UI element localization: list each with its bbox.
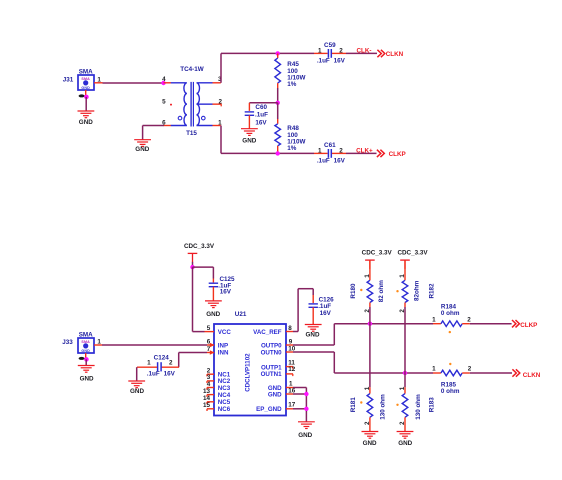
wire top rail [221,52,314,54]
capacitor C59 [314,49,346,58]
wire R184 to CLKP connector [470,323,512,325]
svg-text:16V: 16V [320,310,332,317]
wire T15 pin3 up to top rail [220,53,222,82]
ground GND at C125 [205,301,222,318]
wire J31 pin1 to T15 pin4 [103,82,165,84]
ground GND at R183 [397,432,414,447]
svg-text:GND: GND [79,119,93,126]
svg-text:5: 5 [162,99,166,106]
svg-text:GND: GND [206,311,220,318]
wire C59 to CLKN connector [346,52,377,54]
wire junction to C60 [249,102,277,104]
svg-text:4: 4 [207,381,211,388]
svg-text:NC4: NC4 [218,392,231,399]
svg-text:SMA: SMA [81,340,90,344]
junction CDC_3.3V [190,265,194,269]
svg-text:R183: R183 [428,397,435,413]
wire VAC_REF pin8 to C126 [293,331,298,333]
R183 labels [396,386,435,425]
svg-text:CDC_3.3V: CDC_3.3V [362,249,393,256]
svg-text:GND: GND [298,432,312,439]
svg-text:17: 17 [288,402,296,409]
R184 labels [432,303,471,333]
wire GND pin1 [293,387,306,389]
resistor R45 [275,53,281,88]
wire R45 to middle junction [277,88,279,103]
wire R182 down through CLKP rail to CLKN rail [404,307,406,373]
wire OUTP0 pin9 to CLKP rail [293,344,334,346]
wire R185 to CLKN connector [470,372,512,374]
svg-text:1: 1 [432,366,436,373]
svg-text:J33: J33 [62,339,73,346]
svg-text:1: 1 [289,381,293,388]
svg-text:VAC_REF: VAC_REF [253,329,282,336]
C125 value labels [218,276,235,295]
svg-text:15: 15 [203,402,211,409]
wire GND pin16 [293,393,306,395]
ground GND at C60 [241,129,258,145]
svg-text:GND: GND [81,349,90,353]
svg-text:TC4-1W: TC4-1W [180,66,203,73]
svg-text:GND: GND [242,137,256,144]
svg-text:OUTP0: OUTP0 [261,342,282,349]
capacitor C61 [314,149,346,158]
R45 value labels [287,61,305,88]
U21 right pin numbers [288,325,296,408]
R180 labels [350,274,385,313]
U21 right pin stubs [286,332,293,409]
svg-text:C59: C59 [324,42,336,49]
svg-text:16V: 16V [255,120,267,127]
svg-text:16V: 16V [164,371,176,378]
C59 labels [317,42,346,64]
ground GND below J33 [78,366,95,383]
svg-text:1%: 1% [287,145,297,152]
power symbol CDC_3.3V at R182 [397,249,428,269]
wire C61 to CLKP connector [346,152,377,154]
capacitor C60 [245,103,254,129]
svg-text:OUTN1: OUTN1 [261,371,283,378]
wire J33 to GND [85,359,87,365]
wire J31 to GND [85,97,87,111]
svg-text:T15: T15 [186,130,197,137]
svg-text:R180: R180 [350,283,357,299]
C124 labels [147,354,176,377]
svg-text:R48: R48 [287,125,299,132]
svg-text:J31: J31 [63,77,74,84]
svg-text:GND: GND [130,388,144,395]
svg-text:1: 1 [364,386,371,390]
svg-text:1%: 1% [287,81,297,88]
svg-text:130 ohm: 130 ohm [379,394,386,420]
svg-text:1: 1 [399,386,406,390]
svg-text:13: 13 [203,388,211,395]
svg-text:2: 2 [467,316,471,323]
svg-text:CLKN: CLKN [386,51,404,58]
svg-text:INP: INP [218,342,228,349]
svg-text:CLKN: CLKN [523,372,541,379]
C126 value labels [318,297,334,317]
wire junction to C125 [193,266,214,268]
wire bottom rail [221,152,314,154]
svg-text:7: 7 [207,346,211,353]
ground GND at R181 [362,432,379,447]
junction at T15 pin 4 [161,81,165,85]
svg-text:2: 2 [399,421,406,425]
svg-text:0 ohm: 0 ohm [441,388,460,395]
transformer T15 TC4-1W [62,42,540,447]
off-page connector CLKN (bottom) [512,369,519,376]
svg-text:CLKP: CLKP [389,151,406,158]
off-page connector CLKP (bottom) [512,320,519,327]
svg-text:.1uF: .1uF [317,158,330,165]
svg-text:NC3: NC3 [218,385,231,392]
svg-text:2: 2 [339,48,343,55]
connector J31 (SMA) [63,68,103,95]
svg-text:R181: R181 [350,397,357,413]
svg-text:GND: GND [363,440,377,447]
wire R180 to CLKP rail [369,307,371,324]
U21 right pin names [253,329,282,413]
svg-text:VCC: VCC [218,329,232,336]
resistor R184 0 ohm [433,321,470,327]
svg-text:GND: GND [268,392,282,399]
svg-text:.1uF: .1uF [317,58,330,65]
svg-text:16V: 16V [334,158,346,165]
svg-text:1: 1 [399,274,406,278]
svg-text:OUTN0: OUTN0 [261,350,283,357]
R182 labels [396,274,435,313]
svg-text:U21: U21 [235,311,247,318]
resistor R182 82ohm [402,260,408,307]
svg-text:CLK+: CLK+ [356,147,373,154]
wire J33 pin1 to INP pin6 [102,344,207,346]
wire T15 pin6 to ground [143,125,164,127]
R181 labels [350,386,386,425]
svg-text:1: 1 [318,48,322,55]
resistor R181 130 ohm [367,324,373,432]
svg-text:16V: 16V [220,289,232,296]
capacitor C124 [137,362,179,371]
wire OUTN0 pin10 to CLKN rail [293,351,334,353]
svg-text:1: 1 [432,316,436,323]
svg-text:NC6: NC6 [218,406,231,413]
ground GND at C124 [128,381,145,395]
svg-text:6: 6 [207,339,211,346]
ground GND at C126 [305,325,322,339]
svg-text:1: 1 [147,360,151,367]
svg-text:2: 2 [339,148,343,155]
svg-text:CDC_3.3V: CDC_3.3V [397,249,428,256]
svg-text:GND: GND [135,146,149,153]
junction R180/R181 on CLKP rail [368,322,372,326]
junction below J33 [84,357,89,362]
ground GND at U21 pins 1/16/17 [298,422,315,439]
U21 left pin stubs [205,332,215,411]
svg-text:2: 2 [364,421,371,425]
svg-text:16V: 16V [334,58,346,65]
U21 left pin names [218,329,232,413]
svg-text:5: 5 [207,325,211,332]
junction below J31 [84,95,89,100]
wire C124 pin1 to GND [136,367,138,381]
capacitor C125 [209,279,218,301]
svg-text:1: 1 [318,148,322,155]
svg-text:R182: R182 [428,283,435,299]
svg-text:C61: C61 [324,142,336,149]
junction top rail / R45 [276,51,280,55]
svg-text:EP_GND: EP_GND [256,406,282,413]
J33 pin hole marker [79,357,85,360]
svg-text:CDCLVP1102: CDCLVP1102 [245,353,252,392]
ground GND at T15 pin6 [134,140,151,154]
svg-text:GND: GND [80,375,94,382]
svg-text:2: 2 [468,366,472,373]
svg-text:CLKP: CLKP [520,322,537,329]
svg-text:0 ohm: 0 ohm [441,310,460,317]
svg-text:C124: C124 [154,354,170,361]
svg-text:4: 4 [162,76,166,83]
junction pin16 gnd [304,392,308,396]
svg-text:.1uF: .1uF [255,111,268,118]
wire junction down to VCC pin5 [192,267,194,332]
svg-text:.1uF: .1uF [147,371,160,378]
svg-text:14: 14 [203,395,211,402]
off-page connector CLKP (top) [377,150,384,157]
svg-text:NC5: NC5 [218,399,231,406]
ground GND below J31 [78,111,95,126]
svg-text:R45: R45 [287,61,299,68]
svg-text:C60: C60 [255,104,267,111]
svg-text:2: 2 [219,99,223,106]
junction pin17 gnd [304,407,308,411]
capacitor C126 [309,295,318,325]
U21 left pin numbers [203,325,211,409]
junction R182/R183 on CLKN rail [403,371,407,375]
resistor R183 130 ohm [402,373,408,432]
svg-text:82 ohm: 82 ohm [378,280,385,302]
svg-text:82ohm: 82ohm [414,280,421,301]
junction R45/R48/C60 [276,101,280,105]
svg-text:CDC_3.3V: CDC_3.3V [184,243,215,250]
wire EP_GND pin17 [293,408,306,410]
svg-text:SMA: SMA [81,77,90,81]
svg-text:GND: GND [398,440,412,447]
resistor R48 [275,103,281,154]
power symbol CDC_3.3V at R180 [362,249,393,269]
svg-text:1: 1 [218,119,222,126]
svg-text:8: 8 [288,325,292,332]
resistor R180 82 ohm [367,260,373,307]
svg-text:12: 12 [288,366,296,373]
svg-text:GND: GND [306,331,320,338]
svg-text:SMA: SMA [79,68,93,75]
svg-text:GND: GND [81,86,90,90]
power symbol CDC_3.3V at C125/VCC [184,243,215,262]
svg-text:1: 1 [364,274,371,278]
wire power to junction [192,262,194,267]
J31 pin hole marker [79,94,85,97]
U21 input arrows pins 6,7 [210,343,215,355]
R185 labels [432,363,472,395]
junction bottom rail / R48 [276,151,280,155]
C61 labels [317,142,346,165]
resistor R185 0 ohm [433,370,470,376]
svg-text:SMA: SMA [79,331,93,338]
svg-text:CLK-: CLK- [356,48,371,55]
R48 value labels [287,125,305,152]
wire INN pin7 to C124 [179,352,207,354]
svg-text:INN: INN [218,350,229,357]
wire T15 pin1 down to bottom rail [220,126,222,154]
off-page connector CLKN (top) [377,50,384,57]
connector J33 (SMA) [62,331,102,358]
svg-text:2: 2 [169,360,173,367]
C60 value labels [255,104,268,127]
svg-text:130 ohm: 130 ohm [415,394,422,420]
